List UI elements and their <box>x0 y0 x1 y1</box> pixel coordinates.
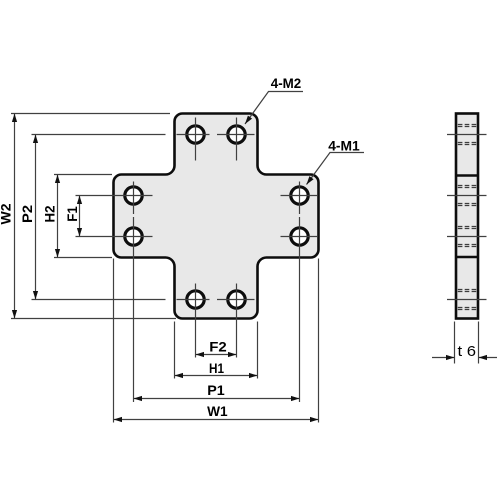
dimension H2 <box>42 175 61 258</box>
extension line W1 right <box>318 259 320 423</box>
hole top-right <box>228 126 245 143</box>
dimension H1 <box>175 360 258 378</box>
svg-text:W1: W1 <box>207 403 228 419</box>
extension line t right <box>478 322 480 364</box>
svg-text:W2: W2 <box>0 203 14 224</box>
side view body <box>456 114 478 319</box>
dimension W1 <box>114 403 319 422</box>
hole left-lower <box>125 228 142 245</box>
centerline bottom holes vertical + F2 extension <box>196 284 237 358</box>
centerline left holes vertical + P1 extension <box>133 182 135 403</box>
extension line H1 left <box>174 322 176 379</box>
plate outline (cross shaped plate, front view) <box>114 114 319 319</box>
centerline left holes horizontal <box>76 196 153 237</box>
centerline right holes horizontal <box>281 196 318 237</box>
svg-text:P2: P2 <box>19 205 35 223</box>
side view hidden hole lines row4 <box>458 290 476 310</box>
dimension P1 <box>134 382 300 401</box>
side view centerline row4 <box>447 299 487 301</box>
side view section line lower <box>455 256 479 258</box>
leader 4-M1 <box>307 139 365 185</box>
side view hidden hole lines row2 <box>458 186 476 206</box>
dimension t 6 <box>432 343 497 360</box>
extension line W1 left <box>113 259 115 423</box>
centerline row bottom holes <box>32 299 255 301</box>
centerline right holes vertical + P1 extension <box>299 182 301 403</box>
side view section line upper <box>455 174 479 176</box>
extension line H2 bottom <box>54 257 112 259</box>
centerline top holes vertical <box>196 118 237 161</box>
side view centerline row2 <box>447 195 487 197</box>
dimension W2 <box>0 114 17 319</box>
side view centerline row1 <box>447 134 487 136</box>
svg-text:4-M1: 4-M1 <box>328 139 360 154</box>
dimension P2 <box>19 135 38 300</box>
svg-text:F2: F2 <box>209 339 227 355</box>
extension line W2 top <box>11 113 170 115</box>
hole bottom-left <box>187 291 204 308</box>
dimension F2 <box>196 339 237 358</box>
leader 4-M2 <box>245 76 303 124</box>
svg-text:H2: H2 <box>42 205 58 222</box>
hole left-upper <box>125 187 142 204</box>
extension line t left <box>454 322 456 364</box>
extension line H1 right <box>257 322 259 379</box>
hole right-upper <box>291 187 308 204</box>
dimension F1 <box>64 196 82 237</box>
side view hidden hole lines row1 <box>458 125 476 145</box>
extension line W2 bottom <box>11 318 176 320</box>
extension line H2 top <box>54 174 112 176</box>
svg-text:H1: H1 <box>209 360 224 376</box>
svg-text:4-M2: 4-M2 <box>271 76 302 91</box>
side view hidden hole lines row3 <box>458 227 476 247</box>
svg-text:t 6: t 6 <box>458 343 477 360</box>
svg-text:P1: P1 <box>207 382 225 398</box>
centerline row top holes <box>32 134 255 136</box>
hole bottom-right <box>228 291 245 308</box>
side view centerline row3 <box>447 236 487 238</box>
hole top-left <box>187 126 204 143</box>
hole right-lower <box>291 228 308 245</box>
svg-text:F1: F1 <box>64 206 80 222</box>
